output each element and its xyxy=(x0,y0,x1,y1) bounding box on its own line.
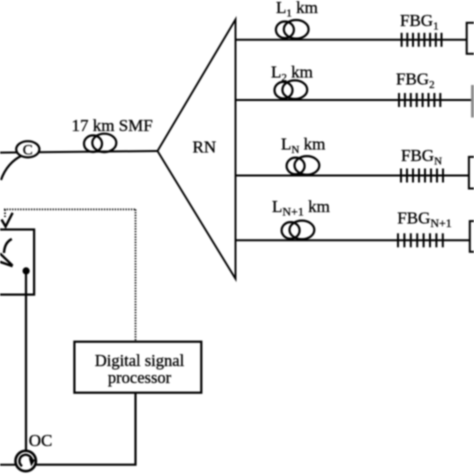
wire: branch 4 xyxy=(236,239,474,241)
svg-text:processor: processor xyxy=(108,368,172,387)
svg-text:RN: RN xyxy=(193,138,217,157)
fiber coil: 17 km SMF spool xyxy=(84,134,116,152)
wire: circulator to DSP bottom corner xyxy=(36,393,136,465)
sensor box branch 3 (cut at edge) xyxy=(469,157,474,189)
wire: laser to circulator xyxy=(25,271,27,452)
wire: curved fiber from coupler C down to left edge xyxy=(1,156,21,180)
svg-text:OC: OC xyxy=(29,431,53,450)
dotted control line: horizontal xyxy=(4,208,136,210)
wire: circulator to left edge xyxy=(0,464,16,466)
sensor bar branch 2 (gray, cut at edge) xyxy=(471,85,474,118)
junction node xyxy=(23,267,30,274)
wire: branch 2 xyxy=(236,99,474,101)
coupler C xyxy=(16,141,39,157)
svg-text:C: C xyxy=(23,143,33,159)
svg-text:17 km SMF: 17 km SMF xyxy=(72,116,153,135)
sensor box branch 1 (cut at edge) xyxy=(467,23,474,54)
digital signal processor box xyxy=(74,342,201,393)
wire: feeder line from left edge to RN apex xyxy=(0,151,158,153)
dotted stub + arrowhead into laser box xyxy=(4,209,6,217)
remote node RN (splitter triangle) xyxy=(158,20,236,279)
wire: branch 3 xyxy=(236,175,474,177)
laser icon: arrow xyxy=(0,254,13,267)
fiber coil: delay L2 xyxy=(275,80,308,99)
svg-text:FBG2: FBG2 xyxy=(396,70,435,92)
FBGN+1 grating xyxy=(398,233,443,247)
wire: branch 1 xyxy=(236,39,474,41)
optical circulator OC xyxy=(16,451,36,471)
FBG2 grating xyxy=(399,93,440,107)
tunable laser box (cut at left edge) xyxy=(0,230,34,295)
svg-text:FBG1: FBG1 xyxy=(400,11,439,33)
FBG1 grating xyxy=(402,33,442,47)
laser icon: arc xyxy=(4,239,12,253)
sensor box branch 4 (cut at edge) xyxy=(470,221,474,252)
FBGN grating xyxy=(401,169,443,183)
svg-text:L1 km: L1 km xyxy=(276,0,318,20)
svg-text:LN km: LN km xyxy=(281,135,325,157)
fiber coil: delay LN xyxy=(287,156,320,175)
dotted control line: vertical to DSP xyxy=(135,209,137,341)
fiber coil: delay LN+1 xyxy=(282,221,315,240)
fiber coil: delay L1 xyxy=(276,20,309,39)
